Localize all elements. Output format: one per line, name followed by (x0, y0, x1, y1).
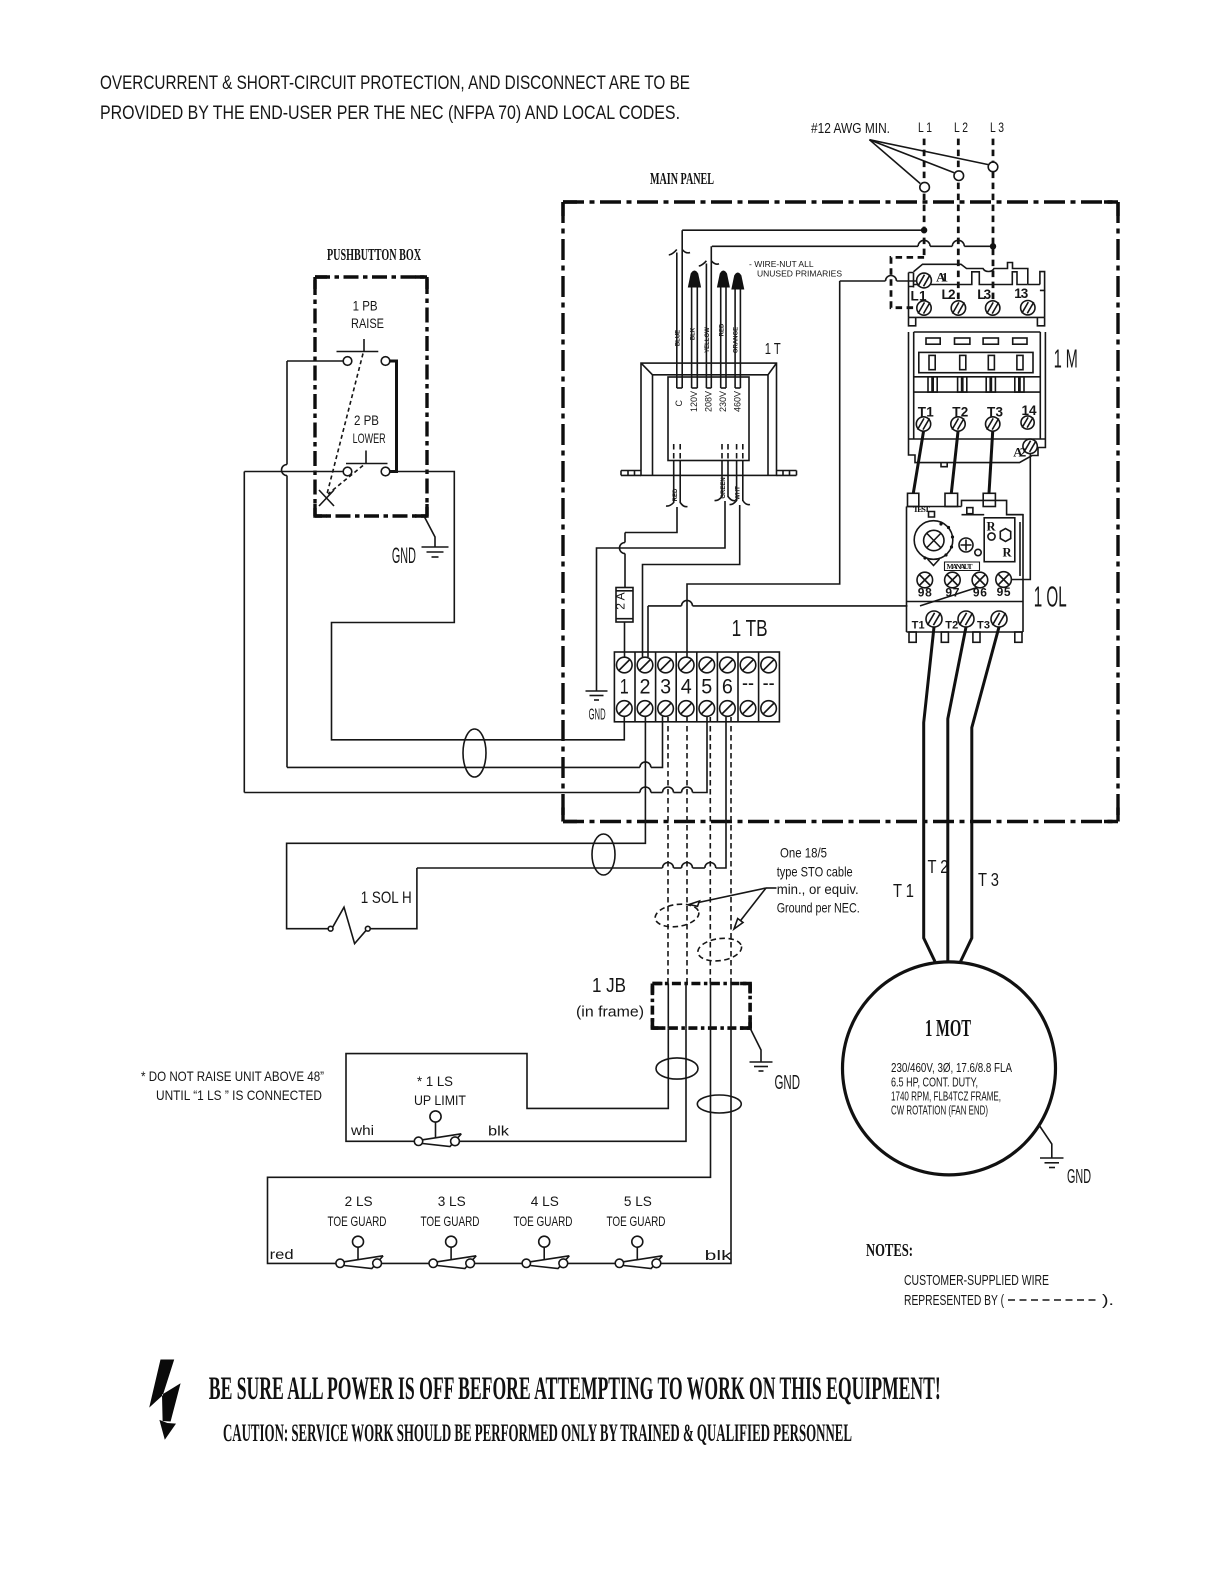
svg-text:1 T: 1 T (765, 341, 781, 358)
svg-text:L 2: L 2 (954, 119, 968, 135)
fuse 2A (616, 588, 633, 623)
overload terminal 95 (996, 572, 1012, 588)
svg-text:230V: 230V (718, 391, 728, 412)
wire JB to up-limit whi side (346, 1028, 668, 1137)
wire L1 incoming dashed (923, 139, 926, 258)
contactor coil terminal A2 (1023, 439, 1037, 453)
svg-text:T3: T3 (987, 405, 1003, 420)
svg-text:TEST: TEST (913, 504, 930, 514)
mechanical linkage dashed (327, 354, 364, 497)
main panel enclosure border (563, 202, 1118, 822)
svg-text:whi: whi (350, 1122, 374, 1138)
primary lead color labels (676, 323, 740, 353)
contactor terminal L1 (917, 301, 931, 315)
1TB screws bottom row (617, 701, 777, 717)
svg-text:NOTES:: NOTES: (866, 1240, 913, 1260)
svg-text:* 1 LS: * 1 LS (417, 1073, 453, 1089)
contactor terminal L3 (986, 301, 1000, 315)
wire 2PB left to TB5 (244, 472, 707, 793)
svg-text:BLUE: BLUE (676, 330, 682, 346)
wire-nut note text (749, 259, 842, 279)
svg-text:WHT: WHT (736, 486, 742, 500)
secondary lead WHT (pair) (730, 444, 751, 505)
wire WHT secondary to TB2 (643, 505, 740, 657)
svg-text:GND: GND (589, 707, 606, 724)
svg-text:YELLOW: YELLOW (705, 327, 711, 353)
label MAN/AUT (945, 562, 980, 571)
svg-text:C: C (674, 400, 684, 407)
wire from up-limit whi to switch (346, 1137, 414, 1141)
overload small circle (975, 549, 981, 555)
svg-text:2 PB: 2 PB (354, 412, 379, 428)
ground symbol at 1TB (586, 691, 608, 700)
overload reset box R (984, 518, 1015, 562)
cable note text (777, 845, 860, 916)
note do not raise text (141, 1068, 324, 1103)
contactor terminal labels bottom (918, 403, 1037, 420)
wire A2 to overload 95 (1011, 454, 1030, 580)
svg-text:TOE GUARD: TOE GUARD (514, 1213, 573, 1229)
wire toe guard row (268, 1259, 616, 1263)
overload terminal number labels (918, 585, 1011, 600)
svg-text:T1: T1 (918, 405, 934, 420)
svg-text:95: 95 (997, 585, 1011, 599)
wire JB to toe guard chain left (268, 1028, 711, 1259)
motor 1MOT (843, 962, 1056, 1175)
svg-text:1 MOT: 1 MOT (925, 1016, 971, 1042)
cable marker ellipse below JB upper (656, 1058, 698, 1079)
terminal circle L1 (920, 182, 930, 192)
wire TB4 to contactor coil A1 (687, 276, 917, 658)
primary lead 208V (pair) (699, 246, 719, 388)
dashed wire TB5 to junction box (709, 717, 711, 984)
contactor terminal 14 (1021, 416, 1034, 429)
svg-text:5 LS: 5 LS (624, 1193, 652, 1209)
wire from transformer 208V to L3 junction with hops (712, 240, 993, 246)
svg-text:* DO NOT RAISE UNIT ABOVE 48”: * DO NOT RAISE UNIT ABOVE 48” (141, 1068, 324, 1084)
overload output terminal T3 (991, 611, 1007, 627)
secondary lead color labels (673, 477, 742, 501)
contactor terminal labels top (911, 286, 1029, 303)
svg-text:TOE GUARD: TOE GUARD (421, 1213, 480, 1229)
overload terminal 96 (972, 572, 988, 588)
svg-text:blk: blk (488, 1123, 510, 1139)
1TB screws top row (617, 657, 777, 673)
svg-text:).: ). (1102, 1292, 1114, 1309)
svg-text:L2: L2 (942, 287, 956, 302)
svg-text:3: 3 (660, 676, 671, 699)
svg-text:1: 1 (620, 676, 629, 699)
wire JB to up-limit blk side (460, 1028, 687, 1141)
secondary lead GREEN (pair) (715, 444, 736, 501)
wires through junction box (668, 984, 731, 1029)
wire contactor T2 to overload (951, 432, 958, 494)
primary tap labels (674, 391, 743, 412)
contactor terminal T2 (951, 417, 965, 431)
wire TB2 to overload 96 with hop (648, 600, 908, 657)
svg-text:1 OL: 1 OL (1034, 582, 1067, 614)
svg-text:R: R (987, 520, 997, 534)
limit switch 5LS (615, 1236, 662, 1268)
overload terminal 98 (917, 572, 933, 588)
svg-text:T 2: T 2 (928, 857, 949, 877)
svg-text:A1: A1 (936, 270, 948, 285)
transformer 1T body (621, 363, 797, 475)
svg-text:T2: T2 (945, 620, 958, 632)
wire junction box to ground (750, 1028, 761, 1062)
linkage X mark (319, 490, 334, 506)
svg-text:6.5 HP, CONT. DUTY,: 6.5 HP, CONT. DUTY, (891, 1076, 978, 1090)
svg-text:RED: RED (719, 323, 725, 336)
svg-text:2 LS: 2 LS (345, 1193, 373, 1209)
terminal block 1TB (614, 652, 779, 722)
svg-text:GND: GND (775, 1072, 801, 1094)
svg-text:One 18/5: One 18/5 (780, 845, 827, 861)
svg-text:R: R (1003, 546, 1013, 560)
lightning bolt symbol (149, 1360, 180, 1440)
svg-text:PUSHBUTTON BOX: PUSHBUTTON BOX (327, 245, 421, 264)
wire nut on 120V lead (688, 271, 701, 288)
pushbutton 2PB actuator (346, 451, 388, 464)
svg-text:REPRESENTED BY (: REPRESENTED BY ( (904, 1292, 1004, 1309)
svg-text:1 M: 1 M (1054, 344, 1078, 374)
overload terminal 97 (945, 572, 961, 588)
svg-text:RED: RED (673, 488, 679, 501)
svg-text:T1: T1 (912, 620, 925, 632)
wire L3 incoming dashed (992, 139, 995, 301)
svg-text:230/460V, 3Ø, 17.6/8.8 FLA: 230/460V, 3Ø, 17.6/8.8 FLA (891, 1061, 1013, 1075)
overload relay 1OL outline (907, 493, 1024, 642)
wire GREEN secondary to ground (597, 501, 726, 691)
svg-text:RAISE: RAISE (351, 315, 384, 331)
svg-text:--: -- (742, 672, 754, 695)
svg-text:4: 4 (681, 676, 692, 699)
svg-text:#12 AWG MIN.: #12 AWG MIN. (811, 120, 890, 137)
contactor terminal L2 (951, 301, 965, 315)
svg-text:BE SURE ALL POWER IS OFF BEFOR: BE SURE ALL POWER IS OFF BEFORE ATTEMPTI… (209, 1371, 941, 1407)
wire 96 to TB2 diagonal inside overload (920, 588, 977, 606)
motor spec text (891, 1061, 1013, 1118)
overload output terminal T1 (926, 611, 942, 627)
dashed wire TB3 to junction box (667, 717, 669, 984)
ground symbol at motor (1040, 1158, 1064, 1168)
contactor terminal 13 (1021, 301, 1035, 315)
cable marker ellipse lower (592, 834, 615, 875)
svg-text:L 3: L 3 (990, 119, 1004, 135)
wire overload T2 to motor (948, 627, 966, 962)
thick jumper between 1PB and 2PB right contacts (390, 361, 397, 472)
svg-text:CW ROTATION (FAN END): CW ROTATION (FAN END) (891, 1104, 988, 1118)
wire motor to ground (1039, 1125, 1052, 1158)
svg-text:OVERCURRENT & SHORT-CIRCUIT PR: OVERCURRENT & SHORT-CIRCUIT PROTECTION, … (100, 73, 690, 94)
junction dot at L3 (990, 243, 996, 249)
svg-text:CAUTION: SERVICE WORK SHOULD B: CAUTION: SERVICE WORK SHOULD BE PERFORME… (223, 1420, 852, 1447)
limit switch 3LS (429, 1236, 476, 1268)
svg-text:L3: L3 (977, 287, 991, 302)
wire 1PB left to TB3 (282, 361, 663, 767)
overload adjustment dial (914, 521, 953, 566)
terminal circle L3 (988, 162, 998, 172)
wire pushbutton box to ground (424, 516, 435, 547)
wire fuse to TB1 (624, 622, 626, 657)
svg-text:L1: L1 (911, 289, 927, 304)
dashed route from L1 to contactor L1 terminal (891, 257, 924, 307)
overload output terminal T2 (958, 611, 974, 627)
svg-text:BLK: BLK (691, 327, 697, 340)
contactor terminal T1 (916, 417, 930, 431)
svg-text:5: 5 (701, 676, 712, 699)
svg-text:14: 14 (1022, 403, 1037, 418)
svg-text:blk: blk (705, 1247, 733, 1263)
wire nut on 230V lead (717, 271, 730, 288)
overload small screw (959, 538, 973, 552)
svg-text:1740 RPM, FLB4TCZ FRAME,: 1740 RPM, FLB4TCZ FRAME, (891, 1090, 1001, 1104)
pushbutton 2PB contacts (343, 467, 352, 476)
ground symbol at junction box (750, 1062, 773, 1071)
wire JB to toe guard chain right (661, 1028, 731, 1263)
note text top-left (100, 73, 690, 124)
wire 2PB right to TB1 (332, 472, 625, 740)
wire overload T3 to motor (961, 627, 1000, 962)
cable marker ellipse below JB lower (697, 1095, 741, 1113)
svg-text:PROVIDED BY THE END-USER PER T: PROVIDED BY THE END-USER PER THE NEC (NF… (100, 103, 680, 124)
svg-text:min., or equiv.: min., or equiv. (777, 881, 859, 897)
svg-text:GND: GND (392, 543, 416, 568)
dashed cable ellipse lower (696, 936, 743, 964)
wire from transformer C to L1 junction (682, 229, 924, 231)
overload output labels (912, 620, 990, 632)
svg-text:CUSTOMER-SUPPLIED WIRE: CUSTOMER-SUPPLIED WIRE (904, 1272, 1049, 1289)
dashed wire TB4 to junction box (686, 717, 688, 984)
primary lead 230V (pair with wire nut) (721, 287, 726, 388)
cable marker ellipse near TB (463, 729, 486, 777)
svg-text:ORANGE: ORANGE (734, 327, 740, 353)
svg-text:1 PB: 1 PB (353, 298, 378, 314)
svg-text:UNTIL “1 LS ” IS CONNECTED: UNTIL “1 LS ” IS CONNECTED (156, 1087, 322, 1103)
svg-text:1 TB: 1 TB (732, 615, 768, 641)
wire RED secondary to fuse (620, 507, 678, 588)
svg-text:MAN/AUT: MAN/AUT (947, 562, 973, 571)
toe guard labels (328, 1193, 666, 1229)
primary lead 120V (pair with wire nut) (692, 287, 698, 388)
svg-text:Ground per NEC.: Ground per NEC. (777, 900, 860, 916)
svg-text:120V: 120V (689, 391, 699, 412)
svg-text:13: 13 (1014, 286, 1028, 301)
pushbutton 1PB contacts (343, 357, 352, 366)
junction dot at L1 (921, 227, 927, 233)
svg-text:TOE GUARD: TOE GUARD (607, 1213, 666, 1229)
dial tick dots (923, 522, 954, 559)
contactor 1M outline (909, 263, 1046, 467)
wire contactor T3 to overload (989, 432, 993, 494)
svg-text:1 SOL H: 1 SOL H (361, 888, 412, 907)
svg-text:T 3: T 3 (978, 870, 999, 890)
leader lines to input terminals (869, 140, 988, 184)
limit switch 4LS (522, 1236, 569, 1268)
svg-text:red: red (270, 1246, 294, 1262)
ground symbol at pushbutton box (422, 547, 449, 557)
wire TB2 to solenoid (287, 717, 646, 929)
limit switch 1LS (414, 1111, 461, 1147)
dashed wire TB6 to junction box (730, 717, 732, 984)
svg-text:1 JB: 1 JB (592, 975, 626, 997)
dashed cable ellipse upper (654, 902, 701, 930)
svg-text:98: 98 (918, 585, 932, 599)
1TB terminal numbers (620, 672, 775, 699)
svg-text:460V: 460V (733, 391, 743, 412)
svg-text:3 LS: 3 LS (438, 1193, 466, 1209)
svg-text:T 1: T 1 (893, 881, 914, 901)
svg-text:(in frame): (in frame) (576, 1004, 644, 1021)
svg-text:2 A: 2 A (614, 592, 628, 609)
svg-text:UNUSED PRIMARIES: UNUSED PRIMARIES (757, 269, 842, 279)
svg-text:6: 6 (722, 676, 733, 699)
wire overload T1 to motor (924, 627, 935, 962)
wire nut on 460V lead (731, 273, 744, 290)
svg-text:L 1: L 1 (918, 119, 932, 135)
svg-text:UP LIMIT: UP LIMIT (414, 1092, 466, 1108)
contactor terminal T3 (986, 417, 1000, 431)
svg-text:2: 2 (640, 676, 651, 699)
svg-text:208V: 208V (704, 391, 714, 412)
svg-text:--: -- (763, 672, 775, 695)
terminal circle L2 (954, 171, 964, 181)
svg-text:TOE GUARD: TOE GUARD (328, 1213, 387, 1229)
svg-text:LOWER: LOWER (353, 430, 386, 446)
svg-text:type STO cable: type STO cable (777, 863, 853, 879)
svg-text:- WIRE-NUT ALL: - WIRE-NUT ALL (749, 259, 814, 269)
svg-text:GND: GND (1067, 1166, 1091, 1188)
contactor coil terminal A1 (917, 273, 932, 288)
svg-text:GREEN: GREEN (721, 477, 727, 498)
svg-text:T2: T2 (952, 405, 968, 420)
pushbutton box enclosure (315, 277, 427, 516)
wire contactor T1 to overload (913, 432, 923, 494)
limit switch 2LS (336, 1236, 383, 1268)
wire solenoid to TB6 (370, 717, 726, 929)
solenoid 1SOLH (328, 907, 370, 943)
svg-text:MAIN PANEL: MAIN PANEL (650, 169, 714, 188)
wire L2 incoming dashed (957, 139, 960, 301)
secondary lead RED (pair) (666, 444, 688, 507)
junction box 1JB (652, 984, 750, 1029)
cable note leader arrows (689, 888, 777, 929)
svg-text:4 LS: 4 LS (531, 1193, 559, 1209)
svg-text:A2: A2 (1013, 445, 1026, 460)
primary lead C (pair) (669, 230, 690, 388)
pushbutton 1PB actuator (337, 339, 379, 352)
primary lead 460V (pair with wire nut) (735, 289, 740, 388)
svg-text:T3: T3 (977, 620, 990, 632)
